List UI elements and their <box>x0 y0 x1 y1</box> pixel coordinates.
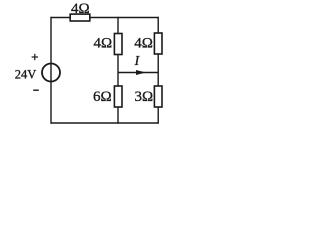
voltage source U1 24V <box>42 64 60 82</box>
wire: middle branch <box>117 17 119 124</box>
resistor R5 3ohm (right branch bottom) <box>154 86 162 107</box>
resistor R1 4ohm (top horizontal) <box>70 14 90 21</box>
polarity minus <box>33 89 39 91</box>
wire: top horizontal net <box>51 17 159 19</box>
svg-text:4Ω: 4Ω <box>134 36 153 52</box>
resistor R2 4ohm (middle branch top) <box>114 34 122 55</box>
wire: middle horizontal link with current arrow <box>118 72 158 74</box>
resistor R4 6ohm (middle branch bottom) <box>114 86 122 107</box>
svg-text:6Ω: 6Ω <box>93 89 112 105</box>
current arrow I <box>136 70 146 75</box>
wire: bottom horizontal net <box>51 122 159 124</box>
wire: right branch <box>157 17 159 124</box>
svg-text:3Ω: 3Ω <box>135 89 154 105</box>
svg-text:4Ω: 4Ω <box>94 36 113 52</box>
svg-text:I: I <box>134 53 141 68</box>
resistor R3 4ohm (right branch top) <box>154 33 162 54</box>
svg-text:24V: 24V <box>15 67 37 81</box>
wire: left branch (through source) <box>50 17 52 124</box>
polarity plus <box>32 54 38 60</box>
svg-text:4Ω: 4Ω <box>71 1 90 17</box>
